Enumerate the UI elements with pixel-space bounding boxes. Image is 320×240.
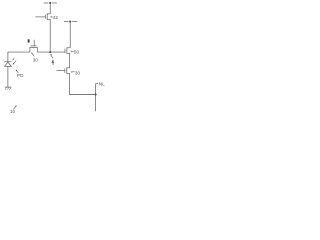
wire (supply to drain of transistor 50) [69, 22, 71, 48]
transistor 50 (amplifier MOSFET) [65, 47, 70, 53]
svg-text:42: 42 [53, 15, 59, 20]
svg-text:50: 50 [74, 50, 80, 55]
label 50 [71, 50, 80, 55]
wire (photodiode anode to ground) [7, 66, 9, 87]
label 40 (floating diffusion node) [50, 54, 54, 65]
label 10 [10, 105, 17, 114]
label PD [16, 70, 24, 79]
svg-text:10: 10 [10, 109, 16, 114]
power supply terminal (top rail for reset transistor) [44, 2, 57, 4]
transistor 30 (transfer MOSFET, in series) [29, 40, 37, 52]
wire (source of 32 to output line) [70, 73, 96, 94]
label 32 [71, 71, 81, 76]
node 40 junction dot [49, 51, 51, 53]
transistor 32 (select MOSFET) [57, 67, 70, 73]
ground [5, 87, 12, 90]
photodiode PD [4, 62, 11, 67]
svg-text:30: 30 [33, 58, 39, 63]
label NL [95, 81, 105, 86]
wire (transistor 30 to gate of transistor 50) [37, 51, 65, 53]
wire (photodiode to transistor 30) [8, 52, 30, 62]
light arrow 2 [13, 61, 17, 65]
power supply terminal (rail for amplifier transistor) [64, 20, 77, 22]
vertical signal line NL [95, 85, 97, 112]
wire (source of 42 down to node 40) [49, 19, 51, 52]
label 42 [50, 15, 58, 20]
wire (source of 50 to drain of 32) [69, 53, 71, 67]
svg-text:PD: PD [17, 73, 24, 78]
transistor 42 (reset MOSFET) [36, 14, 51, 20]
wire (supply to drain of transistor 42) [49, 3, 51, 14]
label 30 [31, 52, 38, 62]
gate terminal mark of transistor 30 [28, 39, 30, 42]
junction dot on output line [95, 94, 97, 96]
svg-text:NL: NL [99, 81, 105, 86]
light arrow 1 [12, 58, 14, 60]
svg-text:30: 30 [75, 71, 81, 76]
